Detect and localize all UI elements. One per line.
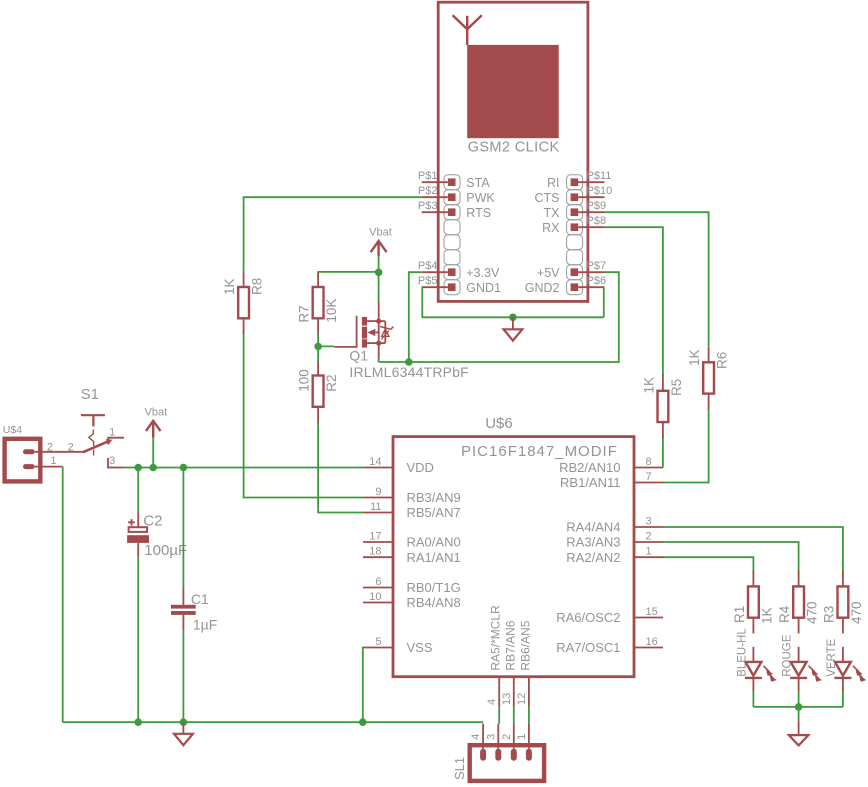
pin holder right column bbox=[567, 175, 583, 190]
wire U$4 pin1 down to ground rail bbox=[62, 467, 64, 723]
U$6 pin 1 (RA2/AN2) bbox=[634, 556, 663, 558]
U$6 bottom pin 12 (RB6/AN5) bbox=[528, 677, 530, 707]
svg-text:8: 8 bbox=[646, 456, 652, 468]
svg-text:ROUGE: ROUGE bbox=[782, 634, 794, 677]
svg-text:RX: RX bbox=[542, 221, 560, 235]
node ground rail junction C1 bbox=[180, 718, 188, 726]
svg-text:1K: 1K bbox=[759, 607, 774, 624]
capacitor C2 100uF electrolytic bbox=[137, 468, 139, 513]
svg-text:RB1/AN11: RB1/AN11 bbox=[560, 475, 620, 490]
U$4 pin1 stub bbox=[35, 466, 63, 468]
svg-text:RA5/*MCLR: RA5/*MCLR bbox=[489, 605, 503, 671]
wire Q1 source to switched rail bbox=[378, 359, 380, 362]
module pin P$10 (CTS) bbox=[571, 193, 579, 201]
U$6 pin 16 (RA7/OSC1) bbox=[634, 647, 663, 649]
node VDD junction Vbat bbox=[149, 464, 157, 472]
node gate junction bbox=[314, 343, 322, 351]
svg-text:GND1: GND1 bbox=[466, 281, 501, 295]
svg-text:10: 10 bbox=[369, 591, 381, 603]
connector U$4 bbox=[5, 439, 41, 482]
svg-text:C1: C1 bbox=[191, 591, 209, 607]
antenna symbol bbox=[453, 15, 482, 45]
wire +5V: module P$7 down to switched Vbat rail bbox=[379, 272, 619, 362]
svg-text:Vbat: Vbat bbox=[369, 226, 392, 238]
svg-text:2: 2 bbox=[646, 531, 652, 543]
U$6 pin 18 (RA1/AN1) bbox=[363, 556, 393, 558]
U$6 pin 3 (RA4/AN4) bbox=[634, 526, 663, 528]
transistor Q1 IRLML6344TRPbF bbox=[334, 302, 393, 359]
node LED ground junction bbox=[795, 703, 803, 711]
wire R7 top to Vbat junction bbox=[318, 271, 379, 273]
svg-text:1µF: 1µF bbox=[193, 617, 217, 633]
LED LED1 (BLEU-HL) bbox=[752, 647, 754, 662]
wire LED ground rail bbox=[753, 706, 843, 708]
svg-text:R7: R7 bbox=[297, 305, 312, 322]
svg-text:SL1: SL1 bbox=[452, 757, 467, 780]
pin holder left column bbox=[444, 175, 460, 190]
svg-text:RB6/AN5: RB6/AN5 bbox=[518, 620, 532, 670]
module pin P$5 (GND1) bbox=[448, 283, 456, 291]
U$6 pin 9 (RB3/AN9) bbox=[363, 497, 393, 499]
svg-text:1: 1 bbox=[109, 426, 115, 438]
svg-text:Vbat: Vbat bbox=[145, 407, 168, 419]
node switched-rail junction bbox=[405, 358, 413, 366]
node Vbat junction bbox=[375, 269, 383, 277]
svg-text:100: 100 bbox=[297, 369, 312, 392]
wire pin RB1/AN11 to R6 bottom bbox=[663, 406, 709, 482]
svg-text:2: 2 bbox=[68, 441, 74, 453]
svg-text:1K: 1K bbox=[222, 278, 237, 295]
wire gate junction down to R2 bbox=[317, 346, 319, 361]
svg-text:GND2: GND2 bbox=[525, 281, 560, 295]
module pin P$2 (PWK) bbox=[448, 193, 456, 201]
svg-text:R6: R6 bbox=[715, 352, 730, 369]
resistor R5 bbox=[658, 391, 669, 422]
U$6 pin 5 (VSS) bbox=[363, 647, 393, 649]
svg-text:16: 16 bbox=[646, 636, 658, 648]
resistor R8 bbox=[238, 287, 249, 318]
wire GND1: module P$5 down to ground run bbox=[422, 287, 604, 317]
resistor R7 bbox=[313, 287, 324, 318]
resistor R1 bbox=[748, 586, 759, 617]
svg-text:PIC16F1847_MODIF: PIC16F1847_MODIF bbox=[461, 443, 618, 460]
wire pin RA3/AN3 to R4 bbox=[663, 542, 799, 572]
svg-text:R8: R8 bbox=[250, 278, 265, 295]
wire pin RA4/AN4 to R3 bbox=[663, 527, 843, 572]
svg-text:9: 9 bbox=[375, 486, 381, 498]
svg-text:BLEU-HL: BLEU-HL bbox=[736, 628, 748, 677]
wire gate junction bbox=[317, 333, 319, 347]
wire PIC MCLR pin to SL1 pin 3 bbox=[498, 707, 500, 724]
svg-text:RA3/AN3: RA3/AN3 bbox=[566, 535, 620, 550]
svg-text:13: 13 bbox=[501, 693, 513, 705]
wire pin RA2/AN2 to R1 bbox=[663, 557, 753, 572]
svg-text:RA6/OSC2: RA6/OSC2 bbox=[556, 610, 620, 625]
svg-text:GSM2 CLICK: GSM2 CLICK bbox=[468, 140, 560, 156]
svg-text:CTS: CTS bbox=[535, 191, 560, 205]
U$6 pin 6 (RB0/T1G) bbox=[363, 587, 393, 589]
SL1 pin 1 bbox=[526, 749, 532, 761]
svg-text:RA2/AN2: RA2/AN2 bbox=[566, 550, 620, 565]
U$6 pin 11 (RB5/AN7) bbox=[363, 512, 393, 514]
U$6 pin 8 (RB2/AN10) bbox=[634, 467, 663, 469]
svg-text:1K: 1K bbox=[687, 349, 702, 366]
svg-text:1: 1 bbox=[50, 455, 56, 467]
node ground rail junction VSS bbox=[359, 718, 367, 726]
svg-text:P$6: P$6 bbox=[587, 275, 607, 287]
module pin P$3 (RTS) bbox=[448, 208, 456, 216]
svg-text:P$5: P$5 bbox=[418, 275, 438, 287]
U$6 pin 17 (RA0/AN0) bbox=[363, 541, 393, 543]
resistor R3 bbox=[838, 586, 849, 617]
wire Vbat junction down to Q1 drain bbox=[378, 272, 380, 302]
svg-text:R3: R3 bbox=[821, 606, 836, 623]
module pin P$11 (RI) bbox=[571, 178, 579, 186]
svg-text:RB3/AN9: RB3/AN9 bbox=[407, 490, 461, 505]
svg-text:P$9: P$9 bbox=[587, 200, 607, 212]
svg-text:P$7: P$7 bbox=[587, 260, 607, 272]
op: IC U$6 PIC16F1847_MODIF box bbox=[393, 437, 634, 677]
wire TX net: module P$9 to R6 top bbox=[604, 212, 708, 346]
wire PIC RB6 pin to SL1 pin 1 bbox=[528, 707, 530, 724]
svg-text:P$4: P$4 bbox=[418, 260, 438, 272]
svg-text:RTS: RTS bbox=[466, 206, 491, 220]
supply Vbat (left, near S1) bbox=[146, 421, 161, 438]
svg-text:RA4/AN4: RA4/AN4 bbox=[566, 520, 620, 535]
connector SL1 bbox=[470, 745, 544, 781]
svg-text:PWK: PWK bbox=[466, 191, 495, 205]
wire R8 bottom to pin RB3/AN9 bbox=[244, 331, 363, 497]
svg-text:6: 6 bbox=[375, 576, 381, 588]
node ground rail junction C2 bbox=[134, 718, 142, 726]
U$6 pin 2 (RA3/AN3) bbox=[634, 541, 663, 543]
svg-text:R1: R1 bbox=[732, 606, 747, 623]
switch throw 3 contact bbox=[108, 458, 124, 468]
LED LED2 (ROUGE) bbox=[798, 647, 800, 662]
U$6 pin 15 (RA6/OSC2) bbox=[634, 617, 663, 619]
ground symbol under module bbox=[512, 317, 514, 329]
wire VDD rail bbox=[123, 467, 363, 469]
svg-text:VERTE: VERTE bbox=[826, 638, 838, 676]
SL1 pin 2 bbox=[511, 749, 517, 761]
module pin P$7 (+5V) bbox=[571, 268, 579, 276]
module pin P$1 (STA) bbox=[448, 178, 456, 186]
node VDD junction C1 bbox=[180, 464, 188, 472]
svg-text:5: 5 bbox=[375, 636, 381, 648]
U$4 pad pin 2 bbox=[23, 449, 35, 454]
U$4 pad pin 1 bbox=[23, 464, 35, 469]
module pin P$4 (+3.3V) bbox=[448, 268, 456, 276]
svg-text:P$11: P$11 bbox=[587, 170, 612, 182]
U$6 bottom pin 4 (RA5/*MCLR) bbox=[498, 677, 500, 707]
resistor R6 bbox=[703, 362, 714, 393]
wire PIC RB7 pin to SL1 pin 2 bbox=[513, 707, 515, 724]
wire VSS to bottom ground rail bbox=[362, 648, 364, 723]
svg-text:+5V: +5V bbox=[537, 266, 560, 280]
svg-text:TX: TX bbox=[544, 206, 561, 220]
SL1 pin 3 bbox=[495, 749, 501, 761]
svg-text:470: 470 bbox=[849, 601, 864, 624]
module dark square bbox=[467, 45, 559, 138]
svg-text:Q1: Q1 bbox=[349, 347, 368, 363]
svg-text:S1: S1 bbox=[81, 386, 99, 403]
svg-text:11: 11 bbox=[370, 501, 381, 513]
svg-text:15: 15 bbox=[646, 606, 658, 618]
module pin P$8 (RX) bbox=[571, 223, 579, 231]
svg-text:R4: R4 bbox=[777, 605, 792, 623]
svg-text:R5: R5 bbox=[669, 379, 684, 396]
wire GND2: module P$6 down to ground run bbox=[603, 287, 606, 317]
wire R2 bottom to pin RB5/AN7 bbox=[318, 421, 363, 512]
node module ground junction bbox=[509, 314, 517, 322]
svg-text:4: 4 bbox=[486, 699, 498, 705]
resistor R4 bbox=[793, 586, 804, 617]
svg-text:U$4: U$4 bbox=[3, 424, 22, 436]
U$4 pin2 stub to switch bbox=[35, 451, 83, 453]
wire +3.3V: module P$4 down to switched Vbat rail bbox=[409, 272, 422, 362]
svg-text:P$10: P$10 bbox=[587, 185, 613, 197]
svg-text:+3.3V: +3.3V bbox=[466, 266, 500, 280]
U$6 pin 14 (VDD) bbox=[363, 467, 393, 469]
svg-text:100µF: 100µF bbox=[144, 542, 187, 559]
node VDD junction C2 bbox=[134, 464, 142, 472]
svg-text:P$8: P$8 bbox=[587, 215, 607, 227]
svg-text:RB2/AN10: RB2/AN10 bbox=[559, 460, 620, 475]
U$6 pin 7 (RB1/AN11) bbox=[634, 482, 663, 484]
SL1 pin 4 bbox=[480, 749, 486, 761]
svg-text:7: 7 bbox=[646, 471, 652, 483]
ground symbol bottom left bbox=[182, 722, 184, 734]
wire PWK net: module P$2 to R8 top bbox=[244, 197, 422, 271]
wire RX net: module P$8 to R5 top bbox=[604, 227, 663, 376]
svg-text:RI: RI bbox=[547, 176, 560, 190]
U$6 pin 10 (RB4/AN8) bbox=[363, 602, 393, 604]
svg-text:VDD: VDD bbox=[407, 460, 434, 475]
svg-text:3: 3 bbox=[646, 516, 652, 528]
wire pin RB2/AN10 to R5 bottom bbox=[662, 436, 664, 467]
wire bottom ground rail bbox=[63, 721, 483, 723]
svg-text:2: 2 bbox=[501, 734, 513, 740]
svg-text:1: 1 bbox=[646, 546, 652, 558]
svg-text:RA0/AN0: RA0/AN0 bbox=[407, 535, 461, 550]
svg-text:IRLML6344TRPbF: IRLML6344TRPbF bbox=[349, 364, 469, 380]
svg-text:1K: 1K bbox=[641, 377, 656, 394]
svg-text:14: 14 bbox=[369, 456, 381, 468]
svg-text:C2: C2 bbox=[143, 513, 162, 530]
svg-text:17: 17 bbox=[369, 531, 381, 543]
svg-text:RA7/OSC1: RA7/OSC1 bbox=[556, 640, 620, 655]
module pin P$9 (TX) bbox=[571, 208, 579, 216]
LED LED3 (VERTE) bbox=[842, 647, 844, 662]
resistor R2 bbox=[313, 376, 324, 407]
svg-text:3: 3 bbox=[109, 455, 115, 467]
svg-text:18: 18 bbox=[369, 546, 381, 558]
svg-text:4: 4 bbox=[470, 734, 482, 740]
svg-text:P$1: P$1 bbox=[418, 170, 438, 182]
svg-text:VSS: VSS bbox=[407, 640, 433, 655]
wire gate junction to Q1 gate bbox=[318, 345, 334, 347]
svg-text:10K: 10K bbox=[324, 299, 339, 323]
capacitor C1 1uF bbox=[182, 468, 184, 587]
svg-text:3: 3 bbox=[485, 734, 497, 740]
module pin P$6 (GND2) bbox=[571, 283, 579, 291]
svg-text:STA: STA bbox=[466, 176, 490, 190]
switch throw 1 contact bbox=[108, 438, 124, 444]
U$6 bottom pin 13 (RB7/AN6) bbox=[513, 677, 515, 707]
svg-text:1: 1 bbox=[516, 734, 528, 740]
supply Vbat (near Q1) bbox=[371, 241, 387, 256]
svg-text:P$2: P$2 bbox=[418, 185, 438, 197]
svg-text:12: 12 bbox=[516, 693, 528, 705]
svg-text:R2: R2 bbox=[324, 375, 339, 392]
svg-text:U$6: U$6 bbox=[485, 415, 513, 432]
module U$5 GSM2 CLICK box bbox=[438, 2, 588, 301]
svg-text:470: 470 bbox=[805, 601, 820, 624]
svg-text:RB4/AN8: RB4/AN8 bbox=[407, 595, 461, 610]
svg-text:RA1/AN1: RA1/AN1 bbox=[407, 550, 461, 565]
svg-text:RB7/AN6: RB7/AN6 bbox=[503, 620, 517, 670]
svg-text:P$3: P$3 bbox=[418, 200, 438, 212]
svg-text:RB0/T1G: RB0/T1G bbox=[407, 580, 461, 595]
svg-text:RB5/AN7: RB5/AN7 bbox=[407, 505, 461, 520]
ground symbol LEDs bbox=[798, 707, 800, 720]
